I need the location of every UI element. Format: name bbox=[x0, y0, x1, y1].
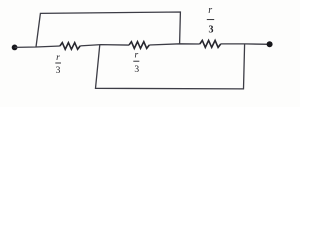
label r/3 for R2 bbox=[133, 51, 139, 75]
svg-text:r: r bbox=[134, 51, 138, 61]
svg-text:r: r bbox=[208, 5, 212, 16]
label r/3 for R3 bbox=[207, 5, 214, 35]
node A (left terminal dot) bbox=[12, 45, 18, 51]
wire (top bypass loop over R1 and R2) bbox=[36, 12, 180, 47]
wire (between R1 and R2, through bottom-loop left junction) bbox=[80, 45, 129, 46]
wire (between R2 and R3, through top-loop right junction) bbox=[149, 44, 200, 45]
resistor R3 (value r/3) bbox=[200, 40, 221, 47]
svg-text:3: 3 bbox=[209, 25, 214, 36]
svg-text:r: r bbox=[56, 53, 60, 63]
wire (left lead from terminal to top-loop junction) bbox=[15, 46, 60, 47]
wire (R3 to right terminal, through bottom-loop right junction) bbox=[221, 43, 270, 45]
resistor R1 (value r/3) bbox=[60, 43, 80, 50]
resistor R2 (value r/3) bbox=[129, 42, 149, 49]
label r/3 for R1 bbox=[55, 53, 61, 76]
svg-text:3: 3 bbox=[56, 66, 61, 76]
svg-text:3: 3 bbox=[134, 65, 139, 75]
wire (bottom bypass loop under R2 and R3) bbox=[96, 44, 245, 89]
node B (right terminal dot) bbox=[267, 41, 273, 47]
